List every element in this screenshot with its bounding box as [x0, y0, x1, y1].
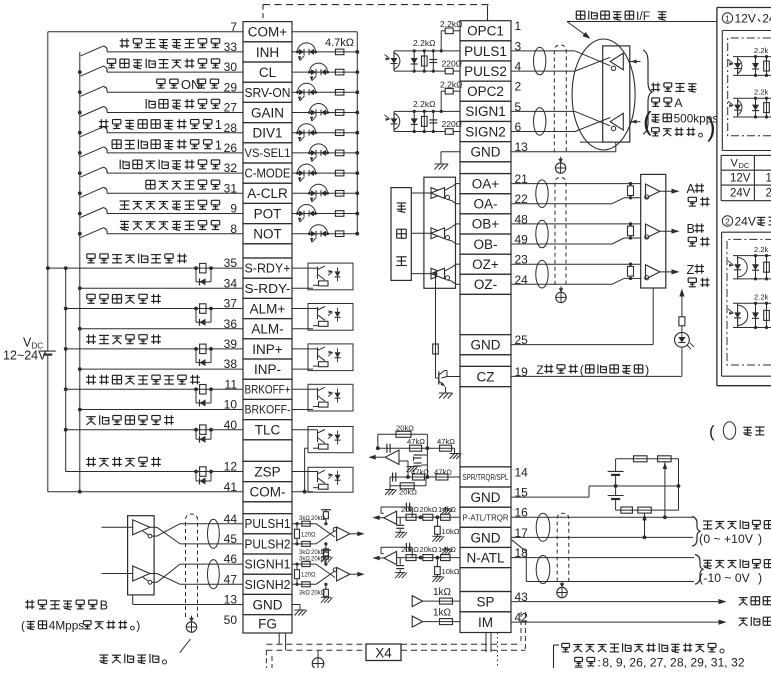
svg-text:3kΩ: 3kΩ [299, 557, 310, 563]
svg-text:OZ+: OZ+ [472, 257, 499, 272]
svg-text:PULS2: PULS2 [464, 64, 507, 79]
svg-text:): ) [136, 619, 140, 633]
svg-text:OZ-: OZ- [474, 277, 497, 292]
svg-text:2: 2 [515, 80, 522, 94]
svg-text:SIGNH2: SIGNH2 [245, 578, 291, 592]
svg-text:2.2kΩ: 2.2kΩ [413, 99, 435, 109]
svg-text:OPC1: OPC1 [467, 24, 504, 39]
svg-text:12V: 12V [735, 12, 756, 26]
svg-text:1k: 1k [766, 173, 771, 185]
svg-text:47kΩ: 47kΩ [434, 468, 452, 477]
svg-text:SRV-ON: SRV-ON [245, 86, 291, 100]
svg-text:A: A [687, 182, 696, 196]
svg-text:1: 1 [215, 117, 222, 132]
svg-text:NOT: NOT [253, 227, 282, 242]
svg-text:GND: GND [253, 597, 283, 612]
svg-text:20kΩ: 20kΩ [401, 545, 419, 554]
svg-text:VS-SEL1: VS-SEL1 [245, 147, 291, 160]
svg-text:INP-: INP- [254, 362, 281, 377]
svg-text:TLC: TLC [255, 423, 281, 438]
svg-text:(: ( [709, 422, 715, 441]
svg-text:(: ( [643, 106, 652, 136]
svg-text:2.2kΩ: 2.2kΩ [440, 80, 462, 90]
svg-text:COM-: COM- [250, 485, 286, 500]
svg-text:ALM+: ALM+ [250, 301, 286, 316]
svg-text:10kΩ: 10kΩ [442, 567, 460, 576]
svg-text:2.2k: 2.2k [754, 245, 769, 254]
svg-text:OA+: OA+ [472, 176, 500, 191]
svg-text:Z: Z [536, 363, 544, 377]
svg-text:1: 1 [725, 15, 730, 24]
svg-text:C-MODE: C-MODE [245, 167, 291, 181]
svg-text:CZ: CZ [477, 369, 495, 384]
svg-text:OA-: OA- [473, 197, 497, 212]
svg-text:DC: DC [739, 161, 750, 170]
svg-text:SP: SP [476, 595, 494, 610]
svg-text:3kΩ: 3kΩ [299, 550, 310, 556]
svg-text:3kΩ: 3kΩ [299, 590, 310, 596]
svg-text:1: 1 [215, 137, 222, 152]
svg-text:PULSH1: PULSH1 [245, 517, 291, 531]
svg-text:20kΩ: 20kΩ [399, 488, 417, 497]
svg-text:INH: INH [256, 45, 279, 60]
svg-text:S-RDY-: S-RDY- [245, 282, 291, 296]
svg-text:ZSP: ZSP [254, 464, 280, 479]
svg-text:V: V [731, 158, 739, 170]
svg-text:): ) [758, 571, 762, 585]
svg-text:220Ω: 220Ω [442, 59, 463, 69]
svg-text:20kΩ: 20kΩ [420, 545, 438, 554]
svg-text:120Ω: 120Ω [301, 532, 316, 538]
svg-text:3kΩ: 3kΩ [299, 516, 310, 522]
svg-text:A: A [674, 96, 683, 110]
svg-text:OPC2: OPC2 [467, 84, 504, 99]
svg-text:20kΩ: 20kΩ [420, 505, 438, 514]
svg-text:): ) [645, 363, 649, 377]
svg-text:POT: POT [254, 206, 282, 221]
svg-text:N-ATL: N-ATL [466, 550, 504, 565]
svg-text:IM: IM [478, 615, 493, 630]
svg-text:2: 2 [725, 218, 730, 227]
svg-text:B: B [687, 222, 695, 236]
svg-text:20kΩ: 20kΩ [396, 424, 414, 433]
svg-text:14: 14 [515, 465, 529, 479]
svg-text:PULSH2: PULSH2 [245, 537, 291, 551]
svg-text:GND: GND [471, 530, 501, 545]
svg-text:OB+: OB+ [472, 217, 500, 232]
svg-text:BRKOFF+: BRKOFF+ [245, 384, 291, 397]
svg-text:2.2k: 2.2k [754, 88, 769, 97]
svg-text:I/F: I/F [636, 9, 650, 23]
svg-text:A-CLR: A-CLR [247, 186, 288, 201]
svg-text:220Ω: 220Ω [442, 119, 463, 129]
svg-text:4.7kΩ: 4.7kΩ [325, 37, 354, 49]
svg-text:FG: FG [258, 617, 277, 632]
svg-text:GAIN: GAIN [251, 105, 284, 120]
svg-text:12V: 12V [730, 173, 751, 185]
svg-text:2.2k: 2.2k [754, 293, 769, 302]
svg-text:120Ω: 120Ω [301, 573, 316, 579]
svg-text:COM+: COM+ [248, 25, 287, 40]
svg-text:SIGN1: SIGN1 [465, 104, 506, 119]
svg-text:): ) [707, 112, 716, 142]
svg-text:24: 24 [762, 12, 771, 26]
svg-text:Z: Z [687, 263, 695, 277]
svg-text:S-RDY+: S-RDY+ [245, 262, 291, 276]
svg-text:DIV1: DIV1 [252, 126, 282, 141]
svg-text:(: ( [580, 363, 584, 377]
svg-text:47kΩ: 47kΩ [437, 437, 455, 446]
svg-text:BRKOFF-: BRKOFF- [245, 404, 291, 417]
svg-text:(: ( [21, 619, 25, 633]
svg-text:GND: GND [471, 338, 501, 353]
svg-text:47kΩ: 47kΩ [411, 468, 429, 477]
svg-text:1kΩ: 1kΩ [433, 587, 452, 598]
svg-text:2.2kΩ: 2.2kΩ [413, 38, 435, 48]
svg-text:X4: X4 [375, 646, 392, 661]
svg-text:10kΩ: 10kΩ [442, 527, 460, 536]
svg-text:INP+: INP+ [252, 342, 283, 357]
svg-text:): ) [758, 532, 762, 546]
svg-text:OB-: OB- [473, 237, 497, 252]
svg-text:24V: 24V [735, 215, 756, 229]
svg-text:B: B [100, 599, 108, 613]
svg-text:-10 ~ 0V: -10 ~ 0V [703, 571, 750, 585]
svg-text:SIGN2: SIGN2 [465, 124, 506, 139]
svg-text:CL: CL [259, 65, 277, 80]
svg-text:2.2kΩ: 2.2kΩ [440, 19, 462, 29]
svg-text:24V: 24V [730, 188, 751, 200]
svg-text:SIGNH1: SIGNH1 [245, 558, 291, 572]
svg-text:1: 1 [515, 19, 522, 33]
svg-text:47kΩ: 47kΩ [407, 437, 425, 446]
svg-text:SPR/TRQR/SPL: SPR/TRQR/SPL [463, 472, 509, 482]
svg-text:0 ~ +10V: 0 ~ +10V [703, 532, 753, 546]
svg-text:20kΩ: 20kΩ [401, 505, 419, 514]
svg-text:PULS1: PULS1 [464, 44, 507, 59]
svg-text:GND: GND [471, 145, 501, 160]
svg-text:ALM-: ALM- [251, 322, 283, 337]
svg-text:2k: 2k [766, 188, 771, 200]
svg-text:2.2k: 2.2k [754, 46, 769, 55]
svg-text:12~24V: 12~24V [3, 349, 47, 363]
svg-text:1kΩ: 1kΩ [433, 608, 452, 619]
svg-text:GND: GND [471, 490, 501, 505]
svg-text:50: 50 [224, 613, 238, 627]
svg-text:4Mpps: 4Mpps [49, 619, 85, 633]
svg-text:P-ATL/TRQR: P-ATL/TRQR [463, 512, 509, 522]
